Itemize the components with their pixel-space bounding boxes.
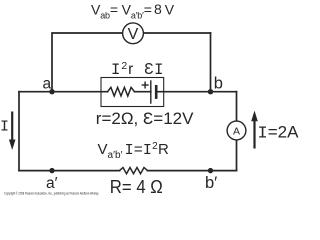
svg-text:R= 4 Ω: R= 4 Ω <box>110 177 163 197</box>
svg-text:I=2A: I=2A <box>258 122 300 143</box>
svg-text:A: A <box>233 125 240 137</box>
svg-text:a′: a′ <box>46 175 58 192</box>
svg-text:b′: b′ <box>205 174 217 192</box>
svg-text:V: V <box>165 1 175 17</box>
svg-text:b: b <box>214 75 223 93</box>
svg-text:I=I2R: I=I2R <box>125 141 169 159</box>
svg-text:I: I <box>0 119 9 136</box>
svg-text:Copyright © 2008 Pearson Educa: Copyright © 2008 Pearson Education, Inc.… <box>4 192 99 196</box>
svg-text:r=2Ω, Ɛ=12V: r=2Ω, Ɛ=12V <box>96 109 194 128</box>
svg-text:a: a <box>43 76 52 93</box>
svg-text:V: V <box>128 26 139 43</box>
svg-text:ƐI: ƐI <box>144 61 164 79</box>
svg-text:8: 8 <box>154 1 162 17</box>
